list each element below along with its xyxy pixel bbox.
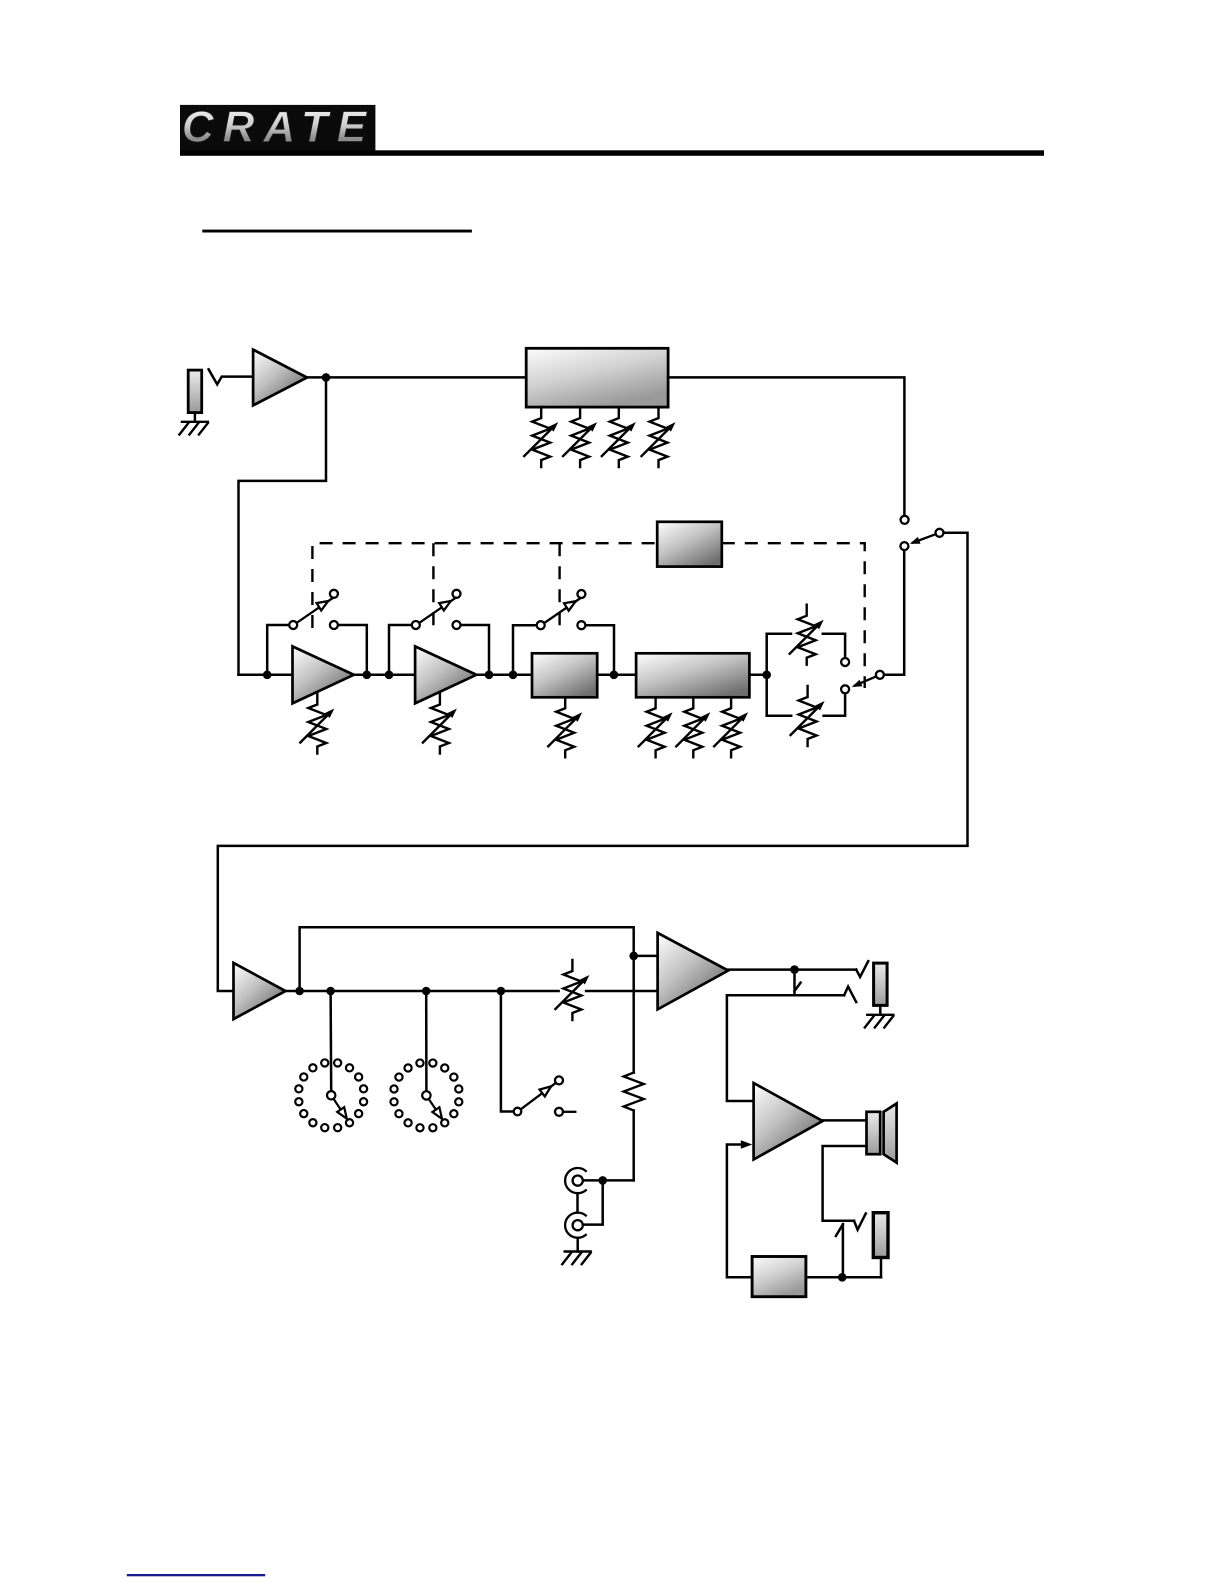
wire bypass loop S2 left — [389, 625, 412, 675]
node (A1 output junction) — [322, 373, 331, 382]
CRATE logo plate — [180, 103, 375, 152]
wire gain branch bottom — [767, 675, 792, 716]
potentiometer P4 — [642, 407, 676, 467]
wire down through resistor R1 — [632, 956, 635, 1073]
headphone jack NC contact — [844, 987, 856, 1003]
wire B3 out — [749, 674, 766, 677]
wire to rotary RS1 — [329, 991, 332, 1091]
wire A2 to A3 — [354, 674, 415, 677]
wire J1 to ground — [194, 413, 197, 422]
ext speaker jack J5 body — [873, 1213, 888, 1258]
node (B3 input) — [610, 671, 619, 680]
ground (input jack) — [179, 422, 208, 435]
headphone jack tip contact — [856, 961, 868, 977]
potentiometer P13 (master volume) — [555, 960, 589, 1020]
wire A1 out to block B1 — [307, 376, 526, 379]
node (rotary2 tap) — [422, 987, 431, 996]
wire R1 to CD jacks — [632, 1111, 635, 1181]
switch S6 (boost) — [514, 1076, 576, 1115]
node (A3 input) — [385, 671, 394, 680]
wire B4 feedback to A6 — [727, 1145, 752, 1278]
op-amp A6 (power amp) — [754, 1083, 823, 1160]
wire J3 to ground — [576, 1238, 579, 1252]
rotary switch RS2 — [390, 1059, 462, 1131]
RCA jack J2 (CD in L) — [565, 1168, 586, 1193]
wire A4 out — [286, 990, 559, 993]
op-amp A4 (FX buffer) — [234, 963, 286, 1019]
speaker SP1 — [867, 1104, 897, 1163]
node (reverb tap) — [326, 987, 335, 996]
node (headphone tip) — [790, 965, 799, 974]
block B2 (overdrive stage) — [532, 653, 597, 697]
op-amp A5 (driver) — [658, 933, 729, 1010]
node (A3 output) — [485, 671, 494, 680]
headphone jack switch arm — [795, 970, 801, 996]
wire to switch S6 — [501, 991, 514, 1112]
op-amp A3 (gain stage 2) — [415, 646, 476, 703]
jack J1 tip contact + wire to A1 — [209, 369, 254, 384]
node (CD input junction) — [598, 1176, 607, 1185]
wire gain branch top right — [823, 634, 845, 658]
input jack J1 — [188, 370, 202, 413]
wire bypass loop S1 left — [267, 625, 289, 675]
wire gain branch top — [767, 634, 791, 675]
ext speaker jack switch arm — [836, 1224, 843, 1277]
wire send line — [300, 927, 634, 991]
potentiometer P5 — [300, 694, 334, 754]
wire speaker return — [823, 1146, 867, 1221]
potentiometer P10 — [714, 697, 748, 757]
node (gain select) — [762, 671, 771, 680]
potentiometer P9 — [676, 697, 710, 757]
potentiometer P2 — [563, 407, 597, 467]
wire node to overdrive row — [239, 377, 327, 674]
rotary switch RS1 — [295, 1059, 367, 1131]
block B3 (overdrive EQ) — [636, 653, 749, 697]
wire J5 sleeve down — [880, 1258, 883, 1278]
title underline — [202, 230, 472, 233]
wire A6 out to speaker — [823, 1119, 867, 1122]
block B1 (clean channel preamp/EQ) — [526, 348, 668, 407]
headphone jack J4 body — [874, 963, 888, 1005]
switch S5 (channel select) — [900, 516, 943, 550]
switch S4 (gain select) — [841, 658, 884, 693]
ext speaker jack NC contact — [854, 1213, 866, 1229]
wire bypass loop S2 right — [461, 625, 490, 675]
wire node to A5 upper input — [634, 955, 658, 958]
wire CD jack bottom loop — [583, 1180, 603, 1224]
wire between RCA shells — [576, 1193, 579, 1212]
wire S5 common down to power amp section — [218, 533, 968, 991]
footer blue rule — [127, 1574, 265, 1576]
wire gain branch bottom right — [824, 693, 846, 715]
node (speaker return junction) — [838, 1273, 847, 1282]
potentiometer P6 — [423, 694, 457, 754]
wire J4 to ground — [879, 1005, 882, 1014]
wire bypass loop S3 left — [513, 625, 537, 675]
ground (headphone jack) — [865, 1015, 894, 1028]
RCA jack J3 (CD in R) — [565, 1213, 586, 1238]
node (A2 output) — [363, 671, 372, 680]
op-amp A2 (gain stage 1) — [293, 646, 354, 703]
switch S3 (stage 3 bypass) — [537, 590, 586, 629]
feedback arrow into A6 — [741, 1140, 753, 1148]
wire A5 out to headphone jack — [728, 968, 856, 971]
potentiometer P1 — [524, 407, 558, 467]
wire P13 to A5 — [586, 990, 658, 993]
wire headphone NC to power amp — [727, 995, 844, 1101]
node (A4 output) — [295, 987, 304, 996]
op-amp A1 (input buffer) — [253, 350, 307, 406]
node (power amp feed) — [629, 952, 638, 961]
svg-text:CRATE: CRATE — [182, 103, 375, 152]
block B4 (current sense) — [752, 1257, 806, 1297]
node (A2 input) — [263, 671, 272, 680]
wire CD jack top to R1 — [583, 1179, 634, 1182]
wire S4 common to S5 — [884, 550, 904, 675]
potentiometer P8 — [639, 697, 673, 757]
header rule — [180, 150, 1044, 156]
wire bypass loop S1 right — [338, 625, 367, 675]
wire to rotary RS2 — [425, 991, 428, 1091]
dashed control bus — [312, 543, 864, 688]
potentiometer P7 — [548, 697, 582, 757]
wire B2 to B3 — [597, 674, 636, 677]
node (boost tap) — [497, 987, 506, 996]
wire A3 to B2 — [476, 674, 532, 677]
wire row2 input to A2 — [239, 674, 293, 677]
block FS (footswitch logic) — [657, 522, 722, 567]
potentiometer P12 (gain B) — [791, 686, 825, 746]
potentiometer P11 (gain A) — [790, 605, 824, 665]
node (B2 input) — [509, 671, 518, 680]
switch S2 (gain stage 2 bypass) — [412, 590, 461, 629]
resistor R1 (CD input mix) — [624, 1073, 644, 1111]
potentiometer P3 — [602, 407, 636, 467]
ground (CD jacks) — [562, 1252, 591, 1265]
wire bypass loop S3 right — [585, 625, 614, 675]
switch S1 (gain stage 1 bypass) — [289, 590, 338, 629]
wire bottom return to block B4 — [806, 1276, 881, 1279]
wire B1 out to channel switch S5 — [668, 377, 904, 515]
